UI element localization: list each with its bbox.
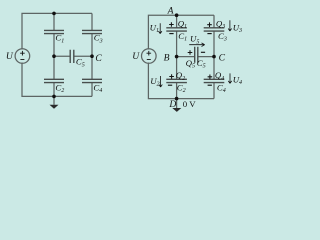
ground stub left: [53, 96, 55, 104]
plus sign C5: [188, 50, 193, 55]
plus sign C2: [169, 74, 174, 79]
wire: bridge wire left part: [54, 55, 70, 57]
capacitor C2 plates right circuit: [166, 79, 187, 82]
capacitor C4 plates: [82, 79, 102, 82]
wire: right branch lower segment: [91, 83, 93, 97]
node D dot: [175, 97, 179, 101]
svg-text:C: C: [219, 53, 226, 64]
junction node bottom left circuit: [52, 95, 56, 99]
wire: branch C-D lower segment: [213, 83, 215, 99]
svg-text:U4: U4: [233, 74, 242, 86]
wire: branch A-B upper segment: [176, 15, 178, 28]
node C dot: [212, 55, 216, 59]
source polarity marks right: [147, 51, 152, 60]
ground symbol left: [50, 105, 59, 109]
svg-text:C5: C5: [197, 58, 206, 70]
svg-text:U1: U1: [150, 22, 159, 34]
source U circle right: [142, 49, 157, 64]
svg-text:Q4: Q4: [215, 70, 224, 82]
wire: left circuit bottom: [22, 63, 92, 97]
minus sign C1: [169, 33, 173, 35]
svg-text:U5: U5: [190, 34, 199, 46]
wire: left branch mid segment: [53, 34, 55, 80]
wire: left branch upper segment: [53, 13, 55, 30]
wire: right circuit bottom: [148, 63, 214, 99]
svg-text:U3: U3: [233, 22, 242, 34]
svg-text:U: U: [6, 51, 14, 62]
arrow down U2: [159, 76, 162, 87]
svg-text:C3: C3: [218, 31, 227, 43]
arrow down U3: [228, 20, 231, 31]
ground symbol right: [172, 108, 181, 112]
svg-text:C4: C4: [93, 82, 102, 94]
ground stub right: [176, 99, 178, 108]
svg-text:C4: C4: [217, 82, 226, 94]
svg-text:Q2: Q2: [176, 70, 185, 82]
minus sign C5: [201, 51, 205, 53]
source U circle left: [15, 49, 30, 64]
minus sign C3: [207, 33, 211, 35]
svg-text:C5: C5: [76, 57, 85, 69]
svg-text:A: A: [167, 5, 174, 16]
capacitor C3 plates: [82, 30, 102, 33]
svg-text:0 V: 0 V: [183, 99, 196, 109]
wire: bridge wire right part: [74, 55, 92, 57]
svg-text:C2: C2: [55, 82, 64, 94]
svg-text:C1: C1: [178, 31, 187, 43]
wire: bridge wire B side: [177, 56, 195, 58]
svg-text:Q5: Q5: [186, 58, 195, 70]
capacitor C2 plates: [44, 79, 64, 82]
capacitor C5 plates: [70, 50, 74, 63]
junction node top left circuit: [52, 12, 56, 16]
wire: left circuit top: [22, 13, 92, 49]
wire: branch A-C mid segment: [213, 31, 215, 79]
wire: branch A-B mid segment: [176, 31, 178, 79]
arrow down U4: [228, 73, 231, 83]
capacitor C1 plates: [44, 30, 64, 33]
plus sign C3: [207, 22, 212, 27]
wire: bridge wire C side: [198, 56, 214, 58]
source polarity marks left: [20, 51, 25, 60]
plus sign C4: [208, 75, 213, 80]
node C dot left circuit: [90, 54, 94, 58]
svg-text:C3: C3: [94, 33, 103, 45]
svg-text:C2: C2: [177, 82, 186, 94]
node B dot: [175, 55, 179, 59]
svg-text:U2: U2: [150, 76, 159, 88]
wire: right branch mid segment: [91, 34, 93, 80]
plus sign C1: [169, 22, 174, 27]
wire: branch B-D lower segment: [176, 83, 178, 99]
wire: right branch upper segment: [91, 13, 93, 30]
svg-text:B: B: [164, 53, 170, 64]
arrow down U1: [159, 23, 162, 33]
minus sign C4: [208, 84, 212, 86]
svg-text:C: C: [95, 53, 102, 64]
capacitor C5 plates right circuit: [195, 47, 198, 63]
wire: right circuit top: [148, 15, 214, 49]
junction node mid-left left circuit: [52, 54, 56, 58]
svg-text:D: D: [168, 99, 176, 110]
capacitor C4 plates right circuit: [204, 79, 225, 82]
arrow right U5: [189, 43, 205, 47]
capacitor C1 plates right circuit: [166, 28, 187, 31]
minus sign C2: [168, 84, 172, 86]
node A dot: [175, 13, 179, 17]
capacitor C3 plates right circuit: [204, 28, 225, 31]
wire: left branch lower segment: [53, 83, 55, 97]
svg-text:U: U: [132, 51, 140, 62]
wire: branch A-C upper segment: [213, 15, 215, 28]
svg-text:C1: C1: [55, 33, 64, 45]
